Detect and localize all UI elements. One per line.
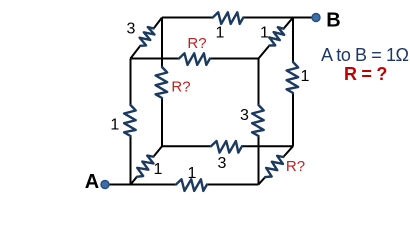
node B	[312, 14, 320, 22]
wire	[162, 17, 316, 19]
resistor front-bottom 1&#937;	[176, 179, 207, 191]
text A to B = 1 ohm	[321, 45, 410, 66]
wire	[130, 59, 132, 185]
svg-text:3: 3	[127, 21, 136, 38]
text R = ?	[344, 64, 404, 85]
resistor back-bottom 3&#937;	[211, 141, 242, 153]
resistor back-left R?	[156, 67, 168, 98]
node A	[101, 181, 109, 189]
svg-text:1: 1	[188, 165, 197, 182]
svg-text:3: 3	[240, 107, 249, 124]
resistor back-right 1&#937;	[287, 62, 299, 93]
wire	[131, 58, 259, 60]
resistor diag bottom-right R?	[265, 156, 283, 177]
resistor diag top-right 1&#937;	[269, 27, 284, 45]
wire	[131, 18, 163, 59]
svg-text:1: 1	[154, 161, 163, 178]
resistor diag top-left 3&#937;	[140, 27, 155, 46]
resistor front-right 3&#937;	[252, 105, 264, 136]
resistor back-top 1&#937;	[213, 12, 244, 24]
svg-text:1: 1	[260, 25, 269, 42]
wire	[258, 59, 260, 185]
svg-text:R?: R?	[171, 79, 190, 96]
svg-text:1: 1	[301, 68, 310, 85]
svg-text:R?: R?	[187, 35, 206, 52]
wire	[105, 184, 259, 186]
wire	[259, 18, 294, 59]
wire	[161, 18, 163, 147]
wire	[292, 18, 294, 147]
resistor front-left 1&#937;	[124, 105, 136, 136]
svg-text:1: 1	[216, 25, 225, 42]
svg-text:R?: R?	[286, 158, 305, 175]
svg-text:B: B	[326, 10, 340, 32]
svg-text:A: A	[85, 171, 99, 193]
wire	[259, 146, 294, 184]
wire	[131, 146, 163, 184]
wire	[162, 145, 293, 147]
resistor front-top R?	[179, 53, 210, 65]
resistor diag bottom-left 1&#937;	[137, 156, 154, 177]
svg-text:3: 3	[218, 155, 227, 172]
svg-text:1: 1	[110, 117, 119, 134]
